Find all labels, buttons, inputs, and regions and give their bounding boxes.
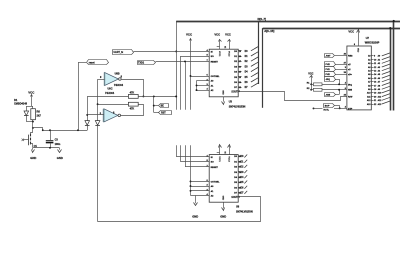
svg-text:R6: R6 (37, 109, 41, 113)
svg-text:VCC: VCC (308, 72, 313, 75)
svg-text:BE: BE (161, 106, 165, 108)
svg-text:A[0..15]: A[0..15] (264, 29, 274, 33)
svg-text:100n: 100n (55, 143, 61, 146)
svg-text:D[0..7]: D[0..7] (258, 17, 267, 21)
svg-text:NMI: NMI (348, 90, 352, 92)
svg-text:RES: RES (348, 56, 353, 58)
svg-text:VCC1: VCC1 (218, 51, 220, 57)
svg-text:74HC04: 74HC04 (114, 84, 124, 87)
svg-text:GND: GND (221, 90, 223, 95)
svg-text:RESET: RESET (211, 167, 219, 169)
svg-text:GND: GND (30, 156, 36, 160)
svg-text:VCC: VCC (28, 90, 35, 94)
svg-text:SO: SO (211, 162, 214, 164)
svg-text:reset: reset (89, 61, 95, 64)
svg-text:GND: GND (57, 156, 63, 160)
svg-text:TXD1: TXD1 (138, 61, 145, 64)
svg-text:IRQ: IRQ (348, 84, 352, 86)
svg-text:SN74LV8153N: SN74LV8153N (229, 105, 246, 108)
svg-text:OUTSEL: OUTSEL (211, 76, 221, 78)
svg-text:47K: 47K (130, 107, 135, 110)
svg-text:SOUT: SOUT (231, 91, 238, 93)
svg-text:-RST: -RST (325, 56, 331, 58)
svg-text:-IRQ: -IRQ (325, 79, 330, 81)
svg-text:RESET: RESET (211, 61, 219, 63)
svg-text:U6B: U6B (115, 73, 120, 76)
svg-text:2k7: 2k7 (37, 114, 42, 118)
svg-text:VCC: VCC (214, 33, 220, 37)
svg-text:-NMI: -NMI (325, 95, 330, 97)
svg-text:RST: RST (161, 113, 166, 115)
svg-text:U6C: U6C (108, 87, 113, 90)
svg-text:SOUT: SOUT (231, 197, 238, 199)
svg-text:OUTSEL: OUTSEL (211, 181, 221, 183)
svg-text:CMBD4148: CMBD4148 (14, 103, 28, 106)
svg-text:VCC: VCC (186, 32, 193, 36)
svg-text:RCTL: RCTL (324, 110, 330, 112)
svg-text:VDD: VDD (356, 48, 358, 53)
svg-text:47K: 47K (130, 92, 135, 95)
svg-text:D1: D1 (14, 98, 18, 102)
svg-text:VCC: VCC (225, 33, 231, 37)
svg-text:VCC2: VCC2 (227, 156, 229, 162)
svg-text:VCC: VCC (348, 30, 354, 34)
svg-text:GND: GND (192, 214, 198, 218)
svg-text:VCC1: VCC1 (218, 156, 220, 162)
svg-text:STP: STP (348, 108, 353, 110)
svg-text:SO: SO (211, 56, 214, 58)
svg-text:VCC2: VCC2 (227, 51, 229, 57)
svg-text:74HC04: 74HC04 (105, 92, 115, 95)
svg-text:W65C02S6P: W65C02S6P (365, 42, 380, 45)
svg-text:UART_tx: UART_tx (114, 51, 124, 54)
svg-text:GND: GND (220, 214, 226, 218)
svg-text:q2o: q2o (348, 74, 353, 76)
svg-text:GND: GND (221, 196, 223, 201)
svg-text:SN74LV8153N: SN74LV8153N (236, 211, 253, 214)
svg-text:BOP: BOP (325, 106, 330, 108)
